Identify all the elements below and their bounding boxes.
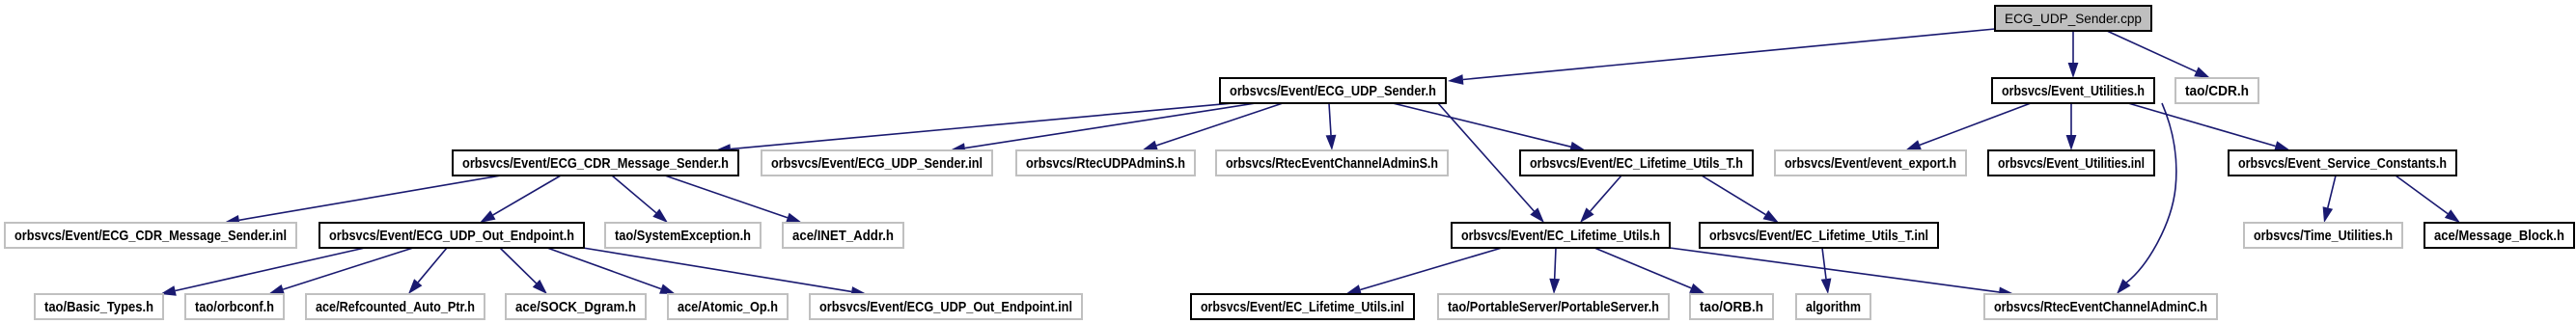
svg-text:tao/CDR.h: tao/CDR.h — [2185, 83, 2249, 99]
node orbsvcs/Event_Utilities.h — [1992, 78, 2154, 103]
edge orbsvcs/Event/ECG_UDP_Sender.h -> orbsvcs/RtecUDPAdminS.h — [1142, 103, 1283, 150]
svg-text:ECG_UDP_Sender.cpp: ECG_UDP_Sender.cpp — [2005, 11, 2142, 26]
svg-text:ace/Atomic_Op.h: ace/Atomic_Op.h — [678, 299, 778, 315]
node orbsvcs/Event_Service_Constants.h — [2229, 150, 2456, 175]
svg-text:orbsvcs/RtecEventChannelAdminS: orbsvcs/RtecEventChannelAdminS.h — [1226, 155, 1438, 172]
edge orbsvcs/Event/EC_Lifetime_Utils.h -> orbsvcs/RtecEventChannelAdminC.h — [1670, 248, 2014, 297]
svg-text:orbsvcs/Event/ECG_UDP_Sender.h: orbsvcs/Event/ECG_UDP_Sender.h — [1230, 83, 1436, 99]
node orbsvcs/RtecUDPAdminS.h — [1016, 150, 1195, 175]
edge orbsvcs/Event_Utilities.h -> orbsvcs/RtecEventChannelAdminC.h — [2117, 103, 2176, 294]
svg-text:tao/ORB.h: tao/ORB.h — [1700, 299, 1763, 315]
svg-text:ace/Message_Block.h: ace/Message_Block.h — [2434, 228, 2564, 244]
node orbsvcs/Event/EC_Lifetime_Utils_T.inl — [1700, 223, 1938, 248]
svg-text:tao/SystemException.h: tao/SystemException.h — [615, 228, 751, 244]
edge orbsvcs/Event/EC_Lifetime_Utils.h -> tao/PortableServer/PortableServer.h — [1549, 248, 1560, 294]
node tao/ORB.h — [1690, 294, 1773, 319]
node tao/orbconf.h — [185, 294, 284, 319]
node orbsvcs/Event/event_export.h — [1775, 150, 1966, 175]
node ECG_UDP_Sender.cpp — [1995, 6, 2151, 31]
node tao/SystemException.h — [605, 223, 761, 248]
node algorithm — [1796, 294, 1870, 319]
edge orbsvcs/Event_Service_Constants.h -> ace/Message_Block.h — [2396, 175, 2460, 223]
svg-text:orbsvcs/Event/event_export.h: orbsvcs/Event/event_export.h — [1785, 155, 1956, 172]
edge orbsvcs/Event/ECG_UDP_Out_Endpoint.h -> tao/Basic_Types.h — [160, 248, 365, 296]
svg-text:orbsvcs/Event_Utilities.inl: orbsvcs/Event_Utilities.inl — [1998, 155, 2145, 172]
node ace/INET_Addr.h — [783, 223, 903, 248]
svg-text:orbsvcs/Event/ECG_CDR_Message_: orbsvcs/Event/ECG_CDR_Message_Sender.h — [462, 155, 729, 172]
svg-text:tao/orbconf.h: tao/orbconf.h — [195, 299, 274, 315]
node orbsvcs/Event/ECG_CDR_Message_Sender.h — [453, 150, 738, 175]
edge orbsvcs/Event/ECG_UDP_Out_Endpoint.h -> ace/SOCK_Dgram.h — [500, 248, 547, 294]
node orbsvcs/Event/ECG_UDP_Out_Endpoint.h — [319, 223, 584, 248]
edge orbsvcs/Event/ECG_UDP_Out_Endpoint.h -> ace/Refcounted_Auto_Ptr.h — [408, 248, 447, 294]
node orbsvcs/Event/ECG_CDR_Message_Sender.inl — [5, 223, 296, 248]
node orbsvcs/Event/EC_Lifetime_Utils.inl — [1191, 294, 1414, 319]
edge orbsvcs/Event_Utilities.h -> orbsvcs/Event_Utilities.inl — [2066, 103, 2077, 150]
edge orbsvcs/Event/ECG_UDP_Sender.h -> orbsvcs/RtecEventChannelAdminS.h — [1326, 103, 1337, 150]
node tao/CDR.h — [2175, 78, 2258, 103]
svg-text:orbsvcs/RtecUDPAdminS.h: orbsvcs/RtecUDPAdminS.h — [1026, 155, 1185, 172]
node orbsvcs/RtecEventChannelAdminS.h — [1216, 150, 1448, 175]
node orbsvcs/Event/EC_Lifetime_Utils_T.h — [1520, 150, 1753, 175]
edge orbsvcs/Event_Utilities.h -> orbsvcs/Event_Service_Constants.h — [2128, 103, 2290, 151]
edge orbsvcs/Event/ECG_CDR_Message_Sender.h -> orbsvcs/Event/ECG_CDR_Message_Sender.inl — [224, 175, 501, 226]
node orbsvcs/RtecEventChannelAdminC.h — [1984, 294, 2217, 319]
svg-text:orbsvcs/Event/ECG_CDR_Message_: orbsvcs/Event/ECG_CDR_Message_Sender.inl — [14, 228, 287, 244]
svg-text:orbsvcs/Event_Utilities.h: orbsvcs/Event_Utilities.h — [2002, 83, 2145, 99]
svg-text:orbsvcs/Event/EC_Lifetime_Util: orbsvcs/Event/EC_Lifetime_Utils_T.h — [1530, 155, 1743, 172]
node orbsvcs/Event/ECG_UDP_Out_Endpoint.inl — [810, 294, 1082, 319]
node tao/Basic_Types.h — [35, 294, 163, 319]
svg-text:orbsvcs/Event/ECG_UDP_Out_Endp: orbsvcs/Event/ECG_UDP_Out_Endpoint.h — [329, 228, 574, 244]
edge orbsvcs/Event/ECG_CDR_Message_Sender.h -> tao/SystemException.h — [612, 175, 668, 223]
svg-text:orbsvcs/Event_Service_Constant: orbsvcs/Event_Service_Constants.h — [2238, 155, 2447, 172]
svg-text:orbsvcs/Event/EC_Lifetime_Util: orbsvcs/Event/EC_Lifetime_Utils_T.inl — [1709, 228, 1928, 244]
edge orbsvcs/Event/EC_Lifetime_Utils_T.h -> orbsvcs/Event/EC_Lifetime_Utils.h — [1580, 175, 1621, 223]
svg-text:ace/Refcounted_Auto_Ptr.h: ace/Refcounted_Auto_Ptr.h — [316, 299, 475, 315]
node ace/Atomic_Op.h — [668, 294, 788, 319]
edge ECG_UDP_Sender.cpp -> orbsvcs/Event/ECG_UDP_Sender.h — [1448, 29, 1995, 85]
node orbsvcs/Event/ECG_UDP_Sender.inl — [762, 150, 992, 175]
edge orbsvcs/Event_Utilities.h -> orbsvcs/Event/event_export.h — [1905, 103, 2031, 150]
svg-text:ace/INET_Addr.h: ace/INET_Addr.h — [792, 228, 894, 244]
edge orbsvcs/Event/ECG_UDP_Sender.h -> orbsvcs/Event/EC_Lifetime_Utils_T.h — [1393, 103, 1586, 151]
node ace/Message_Block.h — [2424, 223, 2574, 248]
node tao/PortableServer/PortableServer.h — [1438, 294, 1669, 319]
node orbsvcs/Time_Utilities.h — [2244, 223, 2402, 248]
svg-text:orbsvcs/RtecEventChannelAdminC: orbsvcs/RtecEventChannelAdminC.h — [1994, 299, 2207, 315]
svg-text:orbsvcs/Event/ECG_UDP_Out_Endp: orbsvcs/Event/ECG_UDP_Out_Endpoint.inl — [819, 299, 1072, 315]
svg-text:orbsvcs/Time_Utilities.h: orbsvcs/Time_Utilities.h — [2254, 228, 2393, 244]
svg-text:tao/PortableServer/PortableSer: tao/PortableServer/PortableServer.h — [1448, 299, 1659, 315]
edge orbsvcs/Event/ECG_UDP_Out_Endpoint.h -> ace/Atomic_Op.h — [547, 248, 676, 294]
node ace/SOCK_Dgram.h — [506, 294, 646, 319]
edge orbsvcs/Event/ECG_UDP_Out_Endpoint.h -> orbsvcs/Event/ECG_UDP_Out_Endpoint.inl — [583, 248, 867, 297]
svg-text:orbsvcs/Event/ECG_UDP_Sender.i: orbsvcs/Event/ECG_UDP_Sender.inl — [771, 155, 983, 172]
svg-text:ace/SOCK_Dgram.h: ace/SOCK_Dgram.h — [515, 299, 636, 315]
edge orbsvcs/Event/ECG_UDP_Sender.h -> orbsvcs/Event/ECG_UDP_Sender.inl — [950, 103, 1256, 153]
edge orbsvcs/Event/ECG_CDR_Message_Sender.h -> ace/INET_Addr.h — [665, 175, 802, 223]
edge orbsvcs/Event/ECG_UDP_Sender.h -> orbsvcs/Event/EC_Lifetime_Utils.h — [1438, 103, 1544, 223]
edge orbsvcs/Event/ECG_CDR_Message_Sender.h -> orbsvcs/Event/ECG_UDP_Out_Endpoint.h — [480, 175, 561, 223]
edge ECG_UDP_Sender.cpp -> tao/CDR.h — [2107, 31, 2210, 78]
edge orbsvcs/Event_Service_Constants.h -> orbsvcs/Time_Utilities.h — [2323, 175, 2336, 223]
svg-text:algorithm: algorithm — [1806, 299, 1861, 315]
svg-text:tao/Basic_Types.h: tao/Basic_Types.h — [44, 299, 153, 315]
node orbsvcs/Event_Utilities.inl — [1988, 150, 2154, 175]
node ace/Refcounted_Auto_Ptr.h — [306, 294, 485, 319]
node orbsvcs/Event/ECG_UDP_Sender.h — [1220, 78, 1446, 103]
node orbsvcs/Event/EC_Lifetime_Utils.h — [1452, 223, 1670, 248]
edge orbsvcs/Event/EC_Lifetime_Utils.h -> orbsvcs/Event/EC_Lifetime_Utils.inl — [1345, 248, 1502, 295]
edge orbsvcs/Event/EC_Lifetime_Utils_T.h -> orbsvcs/Event/EC_Lifetime_Utils_T.inl — [1702, 175, 1779, 223]
edge orbsvcs/Event/EC_Lifetime_Utils.h -> tao/ORB.h — [1594, 248, 1705, 294]
edge ECG_UDP_Sender.cpp -> orbsvcs/Event_Utilities.h — [2068, 31, 2079, 78]
edge orbsvcs/Event/EC_Lifetime_Utils_T.inl -> algorithm — [1821, 248, 1832, 294]
svg-text:orbsvcs/Event/EC_Lifetime_Util: orbsvcs/Event/EC_Lifetime_Utils.h — [1461, 228, 1660, 244]
svg-text:orbsvcs/Event/EC_Lifetime_Util: orbsvcs/Event/EC_Lifetime_Utils.inl — [1201, 299, 1404, 315]
edge orbsvcs/Event/ECG_UDP_Sender.h -> orbsvcs/Event/ECG_CDR_Message_Sender.h — [715, 103, 1233, 154]
edge orbsvcs/Event/ECG_UDP_Out_Endpoint.h -> tao/orbconf.h — [268, 248, 413, 294]
